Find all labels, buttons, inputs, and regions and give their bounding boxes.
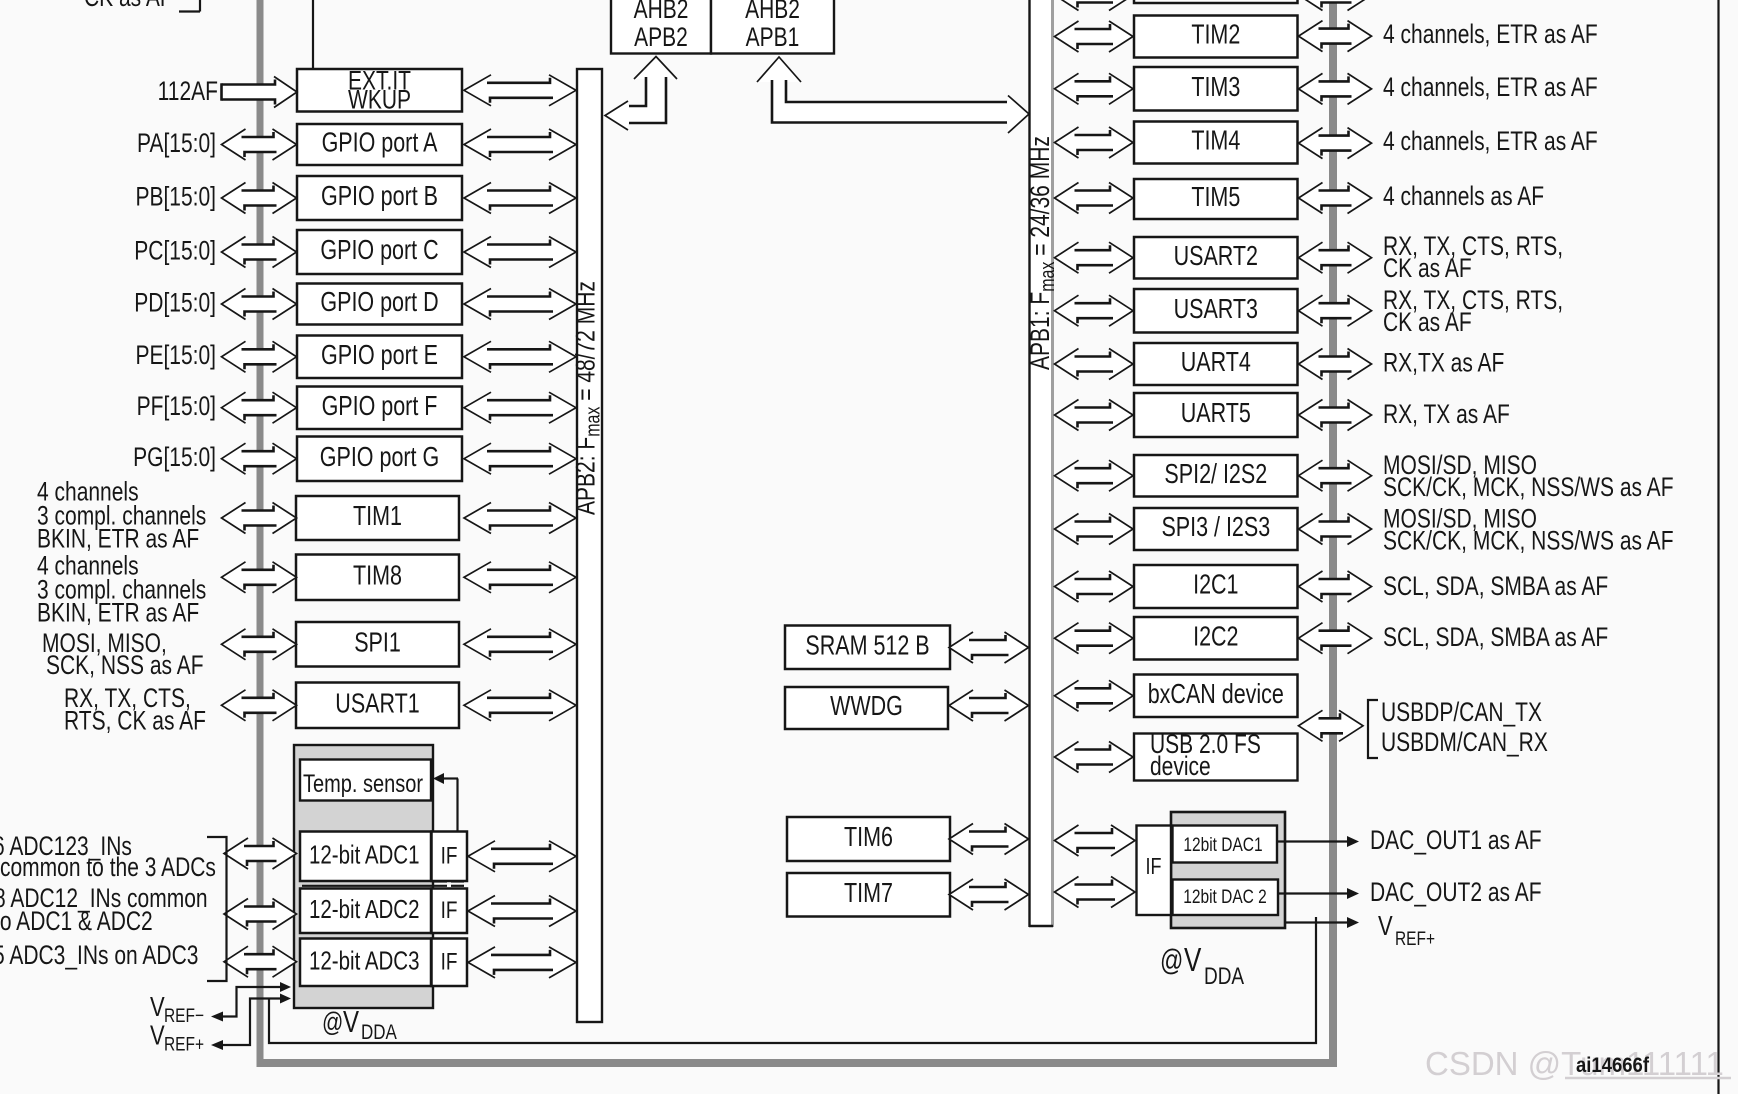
svg-text:APB1: APB1: [746, 23, 800, 53]
svg-text:@: @: [1160, 943, 1183, 976]
svg-text:PF[15:0]: PF[15:0]: [137, 392, 216, 422]
svg-text:device: device: [1150, 752, 1211, 782]
svg-text:SCL, SDA, SMBA as AF: SCL, SDA, SMBA as AF: [1383, 623, 1608, 653]
svg-text:PD[15:0]: PD[15:0]: [134, 288, 216, 318]
svg-text:TIM5: TIM5: [1191, 183, 1240, 213]
svg-text:REF−: REF−: [164, 1004, 204, 1026]
svg-text:USART2: USART2: [1174, 241, 1258, 271]
svg-text:WWDG: WWDG: [830, 692, 903, 722]
svg-text:DDA: DDA: [361, 1020, 397, 1044]
svg-text:I2C1: I2C1: [1193, 570, 1238, 600]
svg-text:AHB2: AHB2: [634, 0, 689, 25]
svg-text:12bit DAC1: 12bit DAC1: [1183, 833, 1262, 855]
svg-text:4 channels, ETR as AF: 4 channels, ETR as AF: [1383, 127, 1598, 157]
svg-text:4 channels as AF: 4 channels as AF: [1383, 182, 1544, 212]
svg-text:12-bit ADC2: 12-bit ADC2: [309, 894, 419, 923]
svg-text:APB2: APB2: [634, 23, 688, 53]
svg-text:WKUP: WKUP: [348, 85, 411, 115]
svg-text:5 ADC3_INs on ADC3: 5 ADC3_INs on ADC3: [0, 941, 198, 971]
svg-text:APB2: Fmax = 48/72 MHz: APB2: Fmax = 48/72 MHz: [571, 281, 604, 515]
svg-text:SPI1: SPI1: [354, 628, 401, 658]
svg-text:SCK/CK, MCK, NSS/WS as AF: SCK/CK, MCK, NSS/WS as AF: [1383, 526, 1674, 556]
svg-text:I2C2: I2C2: [1193, 622, 1238, 652]
svg-text:UART4: UART4: [1181, 348, 1251, 378]
svg-text:12bit DAC 2: 12bit DAC 2: [1183, 885, 1267, 907]
svg-text:SPI3 / I2S3: SPI3 / I2S3: [1161, 513, 1270, 543]
svg-text:ai14666f: ai14666f: [1576, 1054, 1649, 1077]
svg-text:4 channels, ETR as AF: 4 channels, ETR as AF: [1383, 20, 1598, 50]
svg-text:USBDM/CAN_RX: USBDM/CAN_RX: [1381, 728, 1548, 758]
svg-text:Temp. sensor: Temp. sensor: [303, 769, 423, 798]
svg-text:TIM7: TIM7: [844, 878, 893, 908]
svg-text:TIM1: TIM1: [353, 502, 402, 532]
svg-text:CK as AF: CK as AF: [1383, 308, 1472, 338]
svg-text:SCK/CK, MCK, NSS/WS as AF: SCK/CK, MCK, NSS/WS as AF: [1383, 473, 1674, 503]
svg-text:SPI2/ I2S2: SPI2/ I2S2: [1164, 459, 1267, 489]
svg-text:V: V: [343, 1004, 360, 1038]
svg-text:TIM2: TIM2: [1191, 20, 1240, 50]
svg-text:DAC_OUT1 as AF: DAC_OUT1 as AF: [1370, 826, 1542, 856]
svg-text:IF: IF: [441, 841, 458, 869]
svg-text:PA[15:0]: PA[15:0]: [137, 129, 216, 159]
svg-text:GPIO port D: GPIO port D: [320, 288, 438, 318]
svg-text:IF: IF: [1146, 854, 1162, 880]
svg-text:AHB2: AHB2: [745, 0, 800, 25]
svg-text:common to the 3 ADCs: common to the 3 ADCs: [0, 853, 216, 883]
svg-text:CK as AF: CK as AF: [84, 0, 173, 13]
svg-text:CSDN @Tum111111: CSDN @Tum111111: [1425, 1045, 1724, 1082]
svg-text:12-bit ADC1: 12-bit ADC1: [309, 840, 419, 869]
svg-text:PB[15:0]: PB[15:0]: [135, 182, 216, 212]
svg-text:4 channels, ETR as AF: 4 channels, ETR as AF: [1383, 73, 1598, 103]
svg-text:CK as AF: CK as AF: [1383, 254, 1472, 284]
svg-text:DDA: DDA: [1204, 962, 1245, 990]
svg-text:REF+: REF+: [164, 1033, 204, 1055]
svg-text:GPIO port C: GPIO port C: [320, 236, 438, 266]
svg-text:GPIO port B: GPIO port B: [321, 182, 438, 212]
svg-text:GPIO port G: GPIO port G: [320, 442, 439, 472]
svg-text:V: V: [150, 992, 165, 1023]
svg-text:PE[15:0]: PE[15:0]: [135, 341, 216, 371]
svg-text:TIM8: TIM8: [353, 561, 402, 591]
svg-text:RX,TX as AF: RX,TX as AF: [1383, 348, 1504, 378]
svg-text:V: V: [1378, 911, 1393, 942]
svg-text:DAC_OUT2 as AF: DAC_OUT2 as AF: [1370, 878, 1542, 908]
svg-text:GPIO port A: GPIO port A: [322, 128, 438, 158]
svg-text:V: V: [1184, 942, 1201, 979]
svg-text:V: V: [150, 1020, 165, 1051]
svg-text:112AF: 112AF: [158, 77, 218, 107]
svg-text:USART1: USART1: [335, 689, 419, 719]
svg-text:to ADC1 & ADC2: to ADC1 & ADC2: [0, 907, 153, 937]
svg-text:PC[15:0]: PC[15:0]: [134, 236, 216, 266]
svg-text:USART3: USART3: [1174, 294, 1258, 324]
svg-text:BKIN, ETR as AF: BKIN, ETR as AF: [37, 524, 199, 554]
svg-text:12-bit ADC3: 12-bit ADC3: [309, 946, 419, 975]
svg-text:UART5: UART5: [1181, 399, 1251, 429]
svg-text:USBDP/CAN_TX: USBDP/CAN_TX: [1381, 698, 1542, 728]
svg-text:RTS, CK as AF: RTS, CK as AF: [64, 706, 206, 736]
svg-text:TIM4: TIM4: [1191, 126, 1240, 156]
svg-text:PG[15:0]: PG[15:0]: [133, 443, 216, 473]
svg-text:GPIO port E: GPIO port E: [321, 340, 438, 370]
svg-text:SCK, NSS as AF: SCK, NSS as AF: [46, 651, 204, 681]
svg-text:TIM3: TIM3: [1191, 72, 1240, 102]
svg-text:BKIN, ETR as AF: BKIN, ETR as AF: [37, 598, 199, 628]
svg-text:IF: IF: [441, 896, 458, 924]
svg-text:TIM6: TIM6: [844, 823, 893, 853]
svg-text:bxCAN device: bxCAN device: [1148, 679, 1284, 709]
svg-text:SCL, SDA, SMBA as AF: SCL, SDA, SMBA as AF: [1383, 572, 1608, 602]
svg-text:REF+: REF+: [1395, 927, 1435, 949]
svg-text:IF: IF: [441, 947, 458, 975]
svg-text:GPIO port F: GPIO port F: [322, 391, 438, 421]
svg-text:RX, TX as AF: RX, TX as AF: [1383, 400, 1510, 430]
svg-text:APB1: Fmax = 24/36 MHz: APB1: Fmax = 24/36 MHz: [1026, 136, 1059, 370]
svg-text:SRAM 512 B: SRAM 512 B: [805, 631, 929, 661]
svg-text:@: @: [322, 1008, 343, 1038]
